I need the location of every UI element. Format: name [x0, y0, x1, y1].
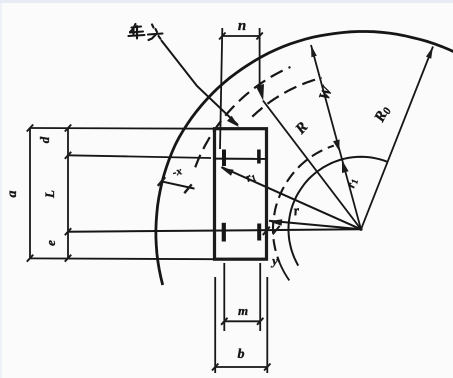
rear left wheel [222, 223, 226, 242]
inner solid arc (r1 inner swept boundary) [289, 157, 388, 266]
rear right wheel [257, 224, 261, 241]
b extension line right [266, 277, 268, 373]
r1 arrowhead at inner solid arc [342, 160, 349, 173]
front axle extension line [68, 155, 211, 158]
n dimension line [222, 35, 259, 37]
front right wheel [257, 150, 261, 164]
svg-text:a: a [5, 191, 20, 198]
svg-text:L: L [42, 190, 57, 199]
label 车头 (vehicle front) drawn as strokes [129, 24, 163, 40]
b dimension line [215, 366, 267, 368]
W / r1 ray [311, 45, 361, 229]
inner dashed arc tail near y label [279, 262, 289, 281]
x dimension line [161, 181, 195, 188]
W inner arrowhead at dashed arc [333, 140, 340, 152]
leader line from 车头 to vehicle front [161, 40, 238, 125]
vehicle body rectangle [215, 129, 267, 260]
n extension line left [220, 28, 222, 149]
front axle [215, 158, 267, 160]
scan top edge band [0, 0, 453, 3]
m extension line left (wheel plane) [223, 263, 225, 331]
dashed wheel-path arc (middle) [252, 78, 321, 117]
R ray end arrowhead (downward) [256, 84, 264, 101]
y dimension slashes on horizontal ray [263, 227, 270, 235]
turning centre node [359, 228, 362, 231]
radius r1 ray to front inner wheel [222, 167, 362, 229]
dimension line a (vertical) [29, 128, 31, 258]
inner dashed arc (rear inner wheel path) [273, 146, 334, 263]
top extension line (vehicle front) [30, 127, 215, 130]
bottom extension line (vehicle rear) [30, 257, 215, 260]
n extension line right [259, 28, 261, 91]
svg-text:m: m [238, 303, 248, 318]
m extension line right [259, 263, 261, 331]
horizontal ray through rear axle [68, 229, 361, 232]
svg-text:b: b [238, 347, 245, 362]
dimension line d/L/e (vertical) [67, 128, 69, 258]
svg-text:e: e [43, 240, 58, 246]
radius R ray [263, 101, 361, 230]
outer turning radius arc R0 [156, 32, 453, 286]
svg-text:n: n [238, 18, 246, 34]
radius R0 ray [361, 47, 433, 230]
svg-text:d: d [37, 136, 52, 143]
m dimension line [224, 320, 260, 322]
scan left edge tint [0, 0, 2, 378]
front left wheel [222, 150, 226, 167]
W outer arrowhead on R0 arc [311, 45, 317, 57]
b extension line left (body plane) [214, 277, 216, 373]
radius r ray [269, 221, 361, 230]
dashed wheel-path arc (outer, front outer wheel) [195, 67, 290, 167]
svg-text:y: y [270, 253, 278, 268]
